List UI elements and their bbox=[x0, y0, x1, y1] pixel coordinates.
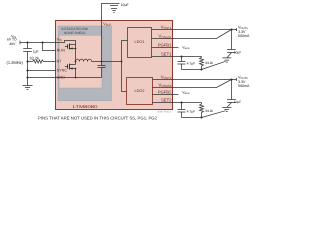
svg-text:GND: GND bbox=[57, 76, 66, 80]
svg-text:LTM8080: LTM8080 bbox=[73, 104, 99, 109]
transistor Q1 top NMOS bbox=[65, 45, 76, 49]
node RC2 bottom junction bbox=[200, 116, 202, 118]
inductor L1 bbox=[76, 59, 92, 61]
capacitor C6 4.7uF ch2 bbox=[178, 103, 186, 118]
ground symbol out2 bbox=[222, 107, 231, 111]
wire VOUT1 bbox=[152, 28, 237, 31]
capacitor C3 lower stub bbox=[101, 68, 103, 78]
wire VBUS to top cap bbox=[102, 4, 109, 62]
svg-text:PINS THAT ARE NOT USED IN THIS: PINS THAT ARE NOT USED IN THIS CIRCUIT: … bbox=[38, 115, 158, 120]
wire VOUT2 bbox=[153, 78, 237, 81]
svg-text:10µF: 10µF bbox=[121, 3, 129, 7]
svg-text:VOUT2: VOUT2 bbox=[161, 75, 172, 81]
svg-text:VOSNS1: VOSNS1 bbox=[159, 34, 172, 40]
Q2 source arrow bbox=[70, 67, 73, 69]
node switch-inductor junction bbox=[75, 61, 77, 63]
node GND junction bbox=[26, 76, 28, 78]
LDO2 block bbox=[127, 78, 153, 105]
wire RC2 bottom to ground bbox=[202, 111, 226, 118]
capacitor C3 internal stub bbox=[101, 62, 103, 66]
svg-text:10µF: 10µF bbox=[234, 100, 241, 104]
capacitor C4 4.7uF ch1 bbox=[178, 57, 186, 70]
node LDO feed junction bbox=[121, 61, 123, 63]
svg-text:500mA: 500mA bbox=[238, 84, 250, 88]
wire VIN internal feed bbox=[56, 41, 76, 45]
resistor R3 33.2k ch2 bbox=[200, 103, 204, 118]
node SYNC junction bbox=[26, 69, 28, 71]
capacitor C3 internal plates bbox=[98, 66, 106, 68]
svg-text:6V TO: 6V TO bbox=[7, 38, 17, 42]
svg-text:LDO2: LDO2 bbox=[135, 89, 145, 93]
svg-text:SET2: SET2 bbox=[161, 98, 172, 103]
wire ground bus left bbox=[27, 52, 29, 86]
node VIN-C1 junction bbox=[26, 41, 28, 43]
LDO1 block bbox=[128, 28, 152, 58]
svg-text:(1.2MHz): (1.2MHz) bbox=[7, 60, 24, 65]
resistor R1 33.2k zigzag bbox=[33, 60, 44, 63]
svg-text:500mA: 500mA bbox=[238, 34, 250, 38]
node VIN-RUN junction bbox=[41, 41, 43, 43]
node rail-Q2 junction bbox=[75, 77, 77, 79]
wire PGFB2 bbox=[153, 94, 179, 96]
wire SYNC bbox=[28, 70, 56, 72]
node VOUT2 junction bbox=[230, 78, 232, 80]
node SET1 junction bbox=[180, 55, 182, 57]
svg-text:4.7µF: 4.7µF bbox=[187, 62, 195, 66]
node SET2 junction bbox=[180, 101, 182, 103]
module U1 LTM8080 outline bbox=[56, 21, 173, 110]
wire PGFB1 bbox=[152, 47, 179, 49]
capacitor C1 1uF plates bbox=[23, 49, 32, 52]
wire C1 stub from VIN wire bbox=[27, 43, 29, 49]
svg-text:RT: RT bbox=[57, 60, 63, 64]
svg-text:8080 TA01a: 8080 TA01a bbox=[158, 110, 172, 113]
integrated EMI noise shield frame bbox=[58, 26, 112, 101]
node VOUT1 junction bbox=[230, 28, 232, 30]
svg-text:SET1: SET1 bbox=[161, 52, 172, 57]
wire RC1 bottom to ground bbox=[202, 61, 226, 69]
node VBUS-cap junction bbox=[101, 61, 103, 63]
ground symbol left bbox=[23, 86, 33, 90]
svg-text:1µF: 1µF bbox=[33, 50, 39, 54]
svg-text:4.7µF: 4.7µF bbox=[187, 110, 195, 114]
resistor R2 33.2k ch1 bbox=[200, 57, 204, 70]
svg-text:SYNC: SYNC bbox=[57, 69, 68, 73]
wire switch node bbox=[75, 45, 77, 65]
wire GND pin bbox=[28, 77, 56, 79]
svg-text:VIN: VIN bbox=[57, 38, 62, 43]
capacitor C5 10uF out1 bbox=[227, 30, 236, 58]
wire VOSNS2 bbox=[153, 80, 232, 88]
wire Q2 source to rail bbox=[75, 69, 77, 78]
svg-text:33.2k: 33.2k bbox=[205, 61, 213, 65]
svg-text:10µF: 10µF bbox=[234, 51, 241, 55]
svg-text:NOISE SHIELD: NOISE SHIELD bbox=[64, 31, 86, 35]
svg-text:VBUS: VBUS bbox=[182, 45, 190, 50]
node RC1 bottom junction bbox=[200, 68, 202, 70]
svg-text:PGFB1: PGFB1 bbox=[158, 43, 172, 48]
svg-text:40V: 40V bbox=[9, 42, 16, 46]
wire SET2 bbox=[153, 102, 202, 104]
transistor Q2 bottom NMOS bbox=[65, 65, 76, 69]
Q1 source node dot bbox=[75, 48, 77, 50]
svg-text:VOSNS2: VOSNS2 bbox=[159, 83, 172, 89]
VIN input terminal tick bbox=[19, 41, 21, 45]
wire VIN input to module bbox=[20, 42, 56, 44]
svg-text:VOUT1: VOUT1 bbox=[161, 25, 172, 31]
wire SET1 RC bottom bbox=[182, 69, 202, 71]
wire VOSNS1 bbox=[152, 30, 232, 39]
Q2 source node dot bbox=[75, 68, 77, 70]
wire internal ground rail bbox=[56, 77, 102, 79]
capacitor C2 10uF top plates bbox=[109, 4, 120, 6]
capacitor C7 10uF out2 bbox=[227, 80, 236, 108]
resistor R1 33.2k leads bbox=[28, 61, 56, 63]
node RT junction bbox=[26, 60, 28, 62]
Q1 source arrow bbox=[70, 47, 73, 49]
svg-text:PGFB2: PGFB2 bbox=[158, 90, 172, 95]
svg-text:RUN: RUN bbox=[57, 49, 65, 53]
ground symbol top bbox=[111, 9, 117, 13]
ground symbol out1 bbox=[222, 58, 231, 62]
svg-text:VBUS: VBUS bbox=[103, 22, 111, 27]
svg-text:LDO1: LDO1 bbox=[135, 40, 145, 44]
wire SET1 bbox=[152, 56, 202, 58]
wire SET2 RC bottom bbox=[182, 117, 202, 119]
wire RUN branch bbox=[43, 43, 56, 51]
svg-text:33.2k: 33.2k bbox=[29, 56, 39, 61]
svg-text:33.2k: 33.2k bbox=[205, 109, 213, 113]
wire LDO feed bbox=[122, 41, 128, 92]
wire inductor to VBUS node bbox=[92, 61, 122, 63]
svg-text:VBUS: VBUS bbox=[182, 91, 190, 96]
